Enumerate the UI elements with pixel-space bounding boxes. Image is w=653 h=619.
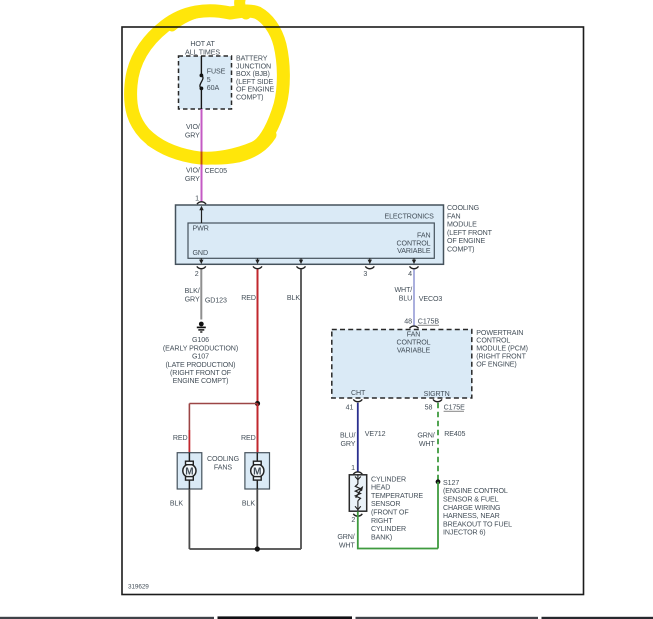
svg-text:(RIGHT FRONT: (RIGHT FRONT: [476, 353, 526, 361]
svg-text:FUSE: FUSE: [207, 68, 226, 76]
svg-text:COMPT): COMPT): [447, 246, 474, 254]
svg-text:TEMPERATURE: TEMPERATURE: [371, 492, 423, 500]
svg-text:M: M: [185, 467, 193, 478]
cooling fan module box: [176, 204, 493, 264]
junction red splice: [255, 401, 260, 406]
svg-text:SIGRTN: SIGRTN: [424, 390, 450, 398]
svg-text:GRN/: GRN/: [337, 533, 354, 541]
svg-text:BLK: BLK: [242, 499, 255, 507]
unnumbered pin (BLK): [297, 258, 306, 268]
svg-text:C175E: C175E: [444, 404, 466, 412]
powertrain control module PCM box: [332, 329, 528, 398]
svg-text:VARIABLE: VARIABLE: [397, 346, 431, 354]
svg-text:FAN: FAN: [417, 232, 431, 240]
svg-text:BREAKOUT TO FUEL: BREAKOUT TO FUEL: [443, 520, 512, 528]
svg-text:(LEFT FRONT: (LEFT FRONT: [447, 229, 493, 237]
svg-text:WHT/: WHT/: [394, 286, 412, 294]
svg-text:CONTROL: CONTROL: [397, 239, 431, 247]
svg-text:OF ENGINE: OF ENGINE: [236, 86, 274, 94]
svg-text:GND: GND: [193, 249, 208, 257]
svg-text:WHT: WHT: [339, 541, 356, 549]
svg-text:BOX (BJB): BOX (BJB): [236, 70, 270, 78]
svg-text:FANS: FANS: [214, 463, 232, 471]
svg-text:VIO/: VIO/: [186, 167, 200, 175]
pin 1 sensor: [351, 464, 362, 474]
wire BLK right fan: [242, 489, 257, 549]
pin 2 sensor: [351, 514, 362, 524]
svg-text:WHT: WHT: [419, 440, 436, 448]
svg-text:INJECTOR 6): INJECTOR 6): [443, 529, 486, 537]
svg-text:GRY: GRY: [340, 440, 355, 448]
svg-text:VECO3: VECO3: [419, 295, 443, 303]
svg-text:GRY: GRY: [185, 296, 200, 304]
svg-text:COOLING: COOLING: [207, 455, 239, 463]
connector CEC05: [205, 167, 228, 175]
svg-text:GRY: GRY: [185, 132, 200, 140]
wire BLK/GRY to ground: [185, 269, 202, 319]
svg-text:319629: 319629: [128, 584, 149, 591]
svg-text:RED: RED: [173, 434, 188, 442]
svg-text:CYLINDER: CYLINDER: [371, 525, 406, 533]
svg-text:RED: RED: [241, 434, 256, 442]
svg-text:(RIGHT FRONT OF: (RIGHT FRONT OF: [170, 369, 232, 377]
pin 4: [408, 258, 418, 278]
svg-text:2: 2: [195, 270, 199, 278]
svg-text:M: M: [253, 467, 261, 478]
svg-text:VE712: VE712: [365, 430, 386, 438]
svg-text:OF ENGINE): OF ENGINE): [476, 360, 516, 368]
svg-text:1: 1: [351, 464, 355, 472]
svg-text:COMPT): COMPT): [236, 94, 263, 102]
svg-text:CHARGE WIRING: CHARGE WIRING: [443, 504, 500, 512]
svg-text:RED: RED: [241, 294, 256, 302]
wire RED to right fan: [241, 404, 257, 453]
svg-text:58: 58: [425, 404, 433, 412]
svg-text:(LEFT SIDE: (LEFT SIDE: [236, 78, 273, 86]
svg-text:2: 2: [351, 516, 355, 524]
label HOT AT ALL TIMES: [185, 40, 220, 56]
battery junction box BJB: [179, 55, 275, 110]
svg-text:(LATE PRODUCTION): (LATE PRODUCTION): [166, 361, 236, 369]
svg-text:COOLING: COOLING: [447, 204, 479, 212]
pin 2: [195, 258, 206, 278]
svg-text:CONTROL: CONTROL: [476, 337, 510, 345]
svg-text:MODULE: MODULE: [447, 221, 477, 229]
wire GRN/WHT below splice: [437, 482, 439, 549]
svg-text:CHT: CHT: [351, 389, 366, 397]
svg-text:(EARLY PRODUCTION): (EARLY PRODUCTION): [163, 344, 238, 352]
svg-text:BLK: BLK: [170, 499, 183, 507]
svg-text:GD123: GD123: [205, 296, 227, 304]
svg-text:RIGHT: RIGHT: [371, 517, 393, 525]
fan motor box right: [245, 453, 270, 489]
cooling fans label: [207, 455, 239, 471]
fuse F5 60A: [200, 56, 226, 109]
svg-text:HEAD: HEAD: [371, 484, 390, 492]
svg-text:POWERTRAIN: POWERTRAIN: [476, 329, 523, 337]
highlighter circle annotation: [131, 0, 284, 159]
cylinder head temperature sensor box: [349, 475, 423, 542]
ground G106 G107: [163, 322, 238, 386]
svg-text:48: 48: [404, 318, 412, 326]
motor M right: [251, 453, 264, 489]
svg-text:SENSOR: SENSOR: [371, 500, 400, 508]
svg-text:1: 1: [195, 195, 199, 203]
svg-text:ENGINE COMPT): ENGINE COMPT): [173, 377, 229, 385]
svg-text:BANK): BANK): [371, 533, 392, 541]
svg-text:SENSOR & FUEL: SENSOR & FUEL: [443, 496, 499, 504]
svg-text:VARIABLE: VARIABLE: [397, 247, 431, 255]
wire BLK left fan: [170, 489, 190, 549]
svg-text:VIO/: VIO/: [186, 123, 200, 131]
wire BLK from module: [287, 269, 301, 549]
svg-text:BLU: BLU: [399, 295, 413, 303]
svg-text:G107: G107: [192, 353, 209, 361]
svg-text:5: 5: [207, 76, 211, 84]
svg-text:OF ENGINE: OF ENGINE: [447, 237, 485, 245]
svg-text:ELECTRONICS: ELECTRONICS: [384, 213, 434, 221]
svg-text:MODULE (PCM): MODULE (PCM): [476, 345, 528, 353]
svg-text:PWR: PWR: [193, 225, 209, 233]
svg-text:BATTERY: BATTERY: [236, 55, 268, 63]
svg-text:GRY: GRY: [185, 175, 200, 183]
pin 3: [363, 258, 374, 278]
svg-text:(ENGINE CONTROL: (ENGINE CONTROL: [443, 487, 508, 495]
unnumbered pin (RED): [253, 258, 262, 268]
svg-text:S127: S127: [443, 479, 459, 487]
thermistor CHT element: [355, 475, 363, 510]
svg-text:4: 4: [408, 270, 412, 278]
wire WHT/BLU: [394, 269, 414, 326]
svg-text:BLK: BLK: [287, 294, 300, 302]
wire BLK bottom bus: [189, 546, 301, 551]
svg-text:3: 3: [363, 270, 367, 278]
svg-text:CEC05: CEC05: [205, 167, 228, 175]
wire RED branch to left fan: [173, 404, 258, 453]
pin 1: [195, 195, 206, 205]
pin 1 arrow inside module: [199, 206, 203, 223]
svg-text:CYLINDER: CYLINDER: [371, 475, 406, 483]
splice S127: [436, 479, 513, 537]
wire GRN/WHT from sensor: [337, 512, 438, 550]
wire GRN/WHT RE405 dashed: [417, 403, 465, 482]
svg-text:RE405: RE405: [444, 430, 465, 438]
fan motor box left: [177, 453, 202, 489]
svg-text:G106: G106: [192, 336, 209, 344]
svg-text:BLK/: BLK/: [185, 287, 200, 295]
svg-text:(FRONT OF: (FRONT OF: [371, 509, 409, 517]
wire VIO/GRY from fuse: [185, 109, 202, 202]
cooling fan module inner block PWR GND FAN CONTROL VARIABLE: [188, 223, 434, 258]
svg-text:ALL TIMES: ALL TIMES: [185, 48, 220, 56]
pin 41: [346, 399, 363, 411]
svg-text:FAN: FAN: [407, 331, 421, 339]
svg-text:FAN: FAN: [447, 212, 461, 220]
wire BLU/GRY VE712: [340, 403, 386, 472]
svg-text:JUNCTION: JUNCTION: [236, 62, 271, 70]
svg-text:HARNESS, NEAR: HARNESS, NEAR: [443, 512, 500, 520]
svg-text:BLU/: BLU/: [340, 432, 355, 440]
motor M left: [183, 453, 196, 489]
svg-text:CONTROL: CONTROL: [397, 339, 431, 347]
connector C175E pin 58: [425, 399, 466, 411]
svg-text:HOT AT: HOT AT: [190, 40, 215, 48]
wire RED from module: [241, 269, 257, 403]
svg-text:GRN/: GRN/: [417, 432, 434, 440]
svg-text:60A: 60A: [207, 84, 220, 92]
svg-text:C175B: C175B: [418, 318, 440, 326]
connector C175B pin 48: [404, 318, 439, 329]
svg-text:41: 41: [346, 404, 354, 412]
